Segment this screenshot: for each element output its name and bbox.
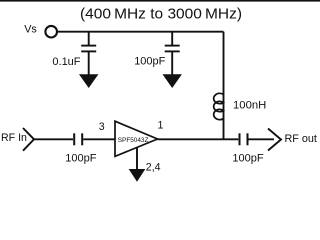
wire top horizontal — [57, 31, 223, 33]
terminal circle Vs — [45, 26, 57, 38]
svg-text:1: 1 — [158, 120, 164, 132]
amp ground stub — [136, 148, 138, 171]
svg-text:100nH: 100nH — [233, 100, 266, 112]
svg-text:(400 MHz to 3000 MHz): (400 MHz to 3000 MHz) — [80, 6, 242, 22]
wire input cap to amp — [83, 138, 115, 140]
capacitor C 0.1uF plates — [81, 45, 96, 47]
wire RF In to input cap — [34, 138, 73, 140]
ground under top 100pF — [163, 74, 182, 88]
inductor L 100nH coil — [214, 93, 224, 119]
svg-text:RF In: RF In — [1, 132, 27, 144]
svg-text:100pF: 100pF — [134, 55, 165, 67]
output arrow — [268, 129, 281, 151]
input arrow — [23, 128, 34, 151]
wire output cap to RF out arrow — [249, 138, 275, 140]
wire inductor bottom to RF line — [223, 94, 225, 141]
wire amp output to output cap — [158, 138, 239, 140]
ground under 0.1uF — [79, 74, 98, 88]
svg-text:0.1uF: 0.1uF — [52, 56, 80, 68]
op-amp U1 SPF5043Z triangle — [115, 121, 158, 156]
capacitor 100pF output plates — [239, 133, 241, 145]
capacitor 100pF input plates — [73, 133, 75, 145]
svg-text:100pF: 100pF — [232, 152, 263, 164]
svg-text:3: 3 — [99, 121, 105, 133]
capacitor C 100pF (top) vertical stub — [171, 32, 173, 46]
wire right vertical to inductor — [223, 32, 225, 94]
capacitor C 0.1uF lower stub — [88, 51, 90, 76]
capacitor C 0.1uF vertical stub — [88, 32, 90, 46]
svg-text:2,4: 2,4 — [146, 161, 161, 173]
top border line — [0, 0, 320, 2]
svg-text:Vs: Vs — [24, 24, 37, 36]
capacitor C 100pF (top) plates — [165, 45, 180, 47]
svg-text:RF out: RF out — [285, 133, 317, 145]
svg-text:100pF: 100pF — [65, 152, 96, 164]
ground under amp — [129, 169, 146, 182]
svg-text:SPF5043Z: SPF5043Z — [118, 137, 149, 144]
capacitor C 100pF (top) lower stub — [171, 51, 173, 76]
